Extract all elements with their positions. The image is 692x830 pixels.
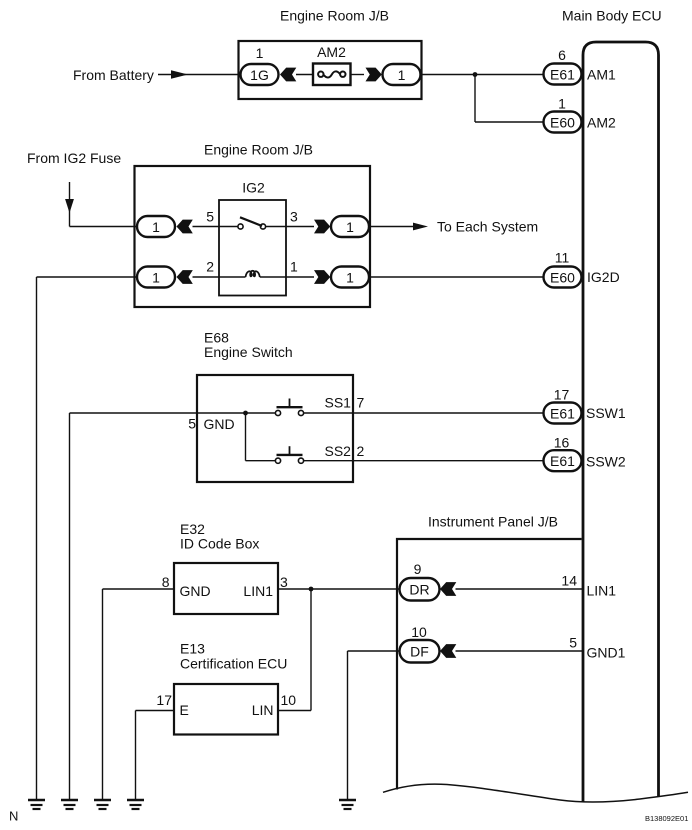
wire SS2 to SSW2 bbox=[304, 460, 544, 462]
svg-text:14: 14 bbox=[561, 573, 577, 589]
svg-text:E60: E60 bbox=[550, 114, 575, 130]
svg-text:3: 3 bbox=[280, 574, 288, 590]
wire E13 E to ground run bbox=[136, 710, 175, 712]
connector DF bbox=[400, 640, 440, 663]
svg-text:1: 1 bbox=[152, 219, 160, 235]
wire arrow to coil bbox=[193, 276, 220, 278]
arrow into row1 left connector bbox=[177, 220, 193, 234]
wire coil to arrow row2 bbox=[286, 276, 314, 278]
svg-text:IG2D: IG2D bbox=[587, 269, 620, 285]
svg-text:E61: E61 bbox=[550, 405, 575, 421]
svg-text:17: 17 bbox=[554, 387, 570, 403]
wire ground run 2 vertical bbox=[69, 413, 71, 800]
wire fuse to arrow bbox=[351, 74, 365, 76]
svg-text:From IG2 Fuse: From IG2 Fuse bbox=[27, 150, 121, 166]
arrow into DF bbox=[440, 644, 456, 658]
connector E61 SSW1 bbox=[544, 403, 582, 424]
connector 1 (row1 left) bbox=[137, 216, 175, 237]
svg-text:11: 11 bbox=[555, 250, 570, 266]
junction block J/B top box bbox=[239, 41, 422, 99]
arrow into row1 right connector bbox=[314, 220, 330, 234]
arrow into row2 right connector bbox=[314, 270, 330, 284]
svg-text:GND: GND bbox=[180, 583, 211, 599]
wire arrow to fuse bbox=[296, 74, 313, 76]
wire SS1 to SSW1 bbox=[304, 412, 544, 414]
svg-text:SSW1: SSW1 bbox=[586, 405, 626, 421]
svg-text:N: N bbox=[9, 809, 18, 824]
svg-text:6: 6 bbox=[558, 47, 566, 63]
wire row2 to left ground run bbox=[37, 276, 138, 278]
wire relay to arrow row1 bbox=[286, 226, 314, 228]
wire E13 LIN to junction bbox=[278, 710, 311, 712]
svg-text:8: 8 bbox=[162, 574, 170, 590]
junction block Instrument Panel J/B outline bbox=[397, 539, 582, 790]
switch E68 box bbox=[197, 375, 353, 482]
svg-text:7: 7 bbox=[357, 395, 365, 411]
junction block Engine Room J/B box bbox=[135, 166, 371, 307]
svg-text:LIN1: LIN1 bbox=[587, 583, 617, 599]
svg-text:3: 3 bbox=[290, 209, 298, 225]
wire LIN1 to DR bbox=[278, 588, 400, 590]
arrow into row2 left connector bbox=[177, 270, 193, 284]
wire to AM1 bbox=[421, 74, 544, 76]
connector E60 AM2 bbox=[544, 112, 582, 133]
wire DF to ECU GND1 bbox=[456, 650, 584, 652]
wire to IG2D bbox=[369, 276, 544, 278]
svg-text:GND1: GND1 bbox=[587, 645, 626, 661]
svg-text:Engine Room J/B: Engine Room J/B bbox=[204, 142, 313, 158]
svg-text:Instrument Panel J/B: Instrument Panel J/B bbox=[428, 514, 558, 530]
svg-text:Certification ECU: Certification ECU bbox=[180, 656, 287, 672]
connector E60 IG2D bbox=[544, 267, 582, 288]
svg-text:SS1: SS1 bbox=[325, 395, 352, 411]
connector 1 (row2 left) bbox=[137, 267, 175, 288]
svg-text:1: 1 bbox=[398, 67, 406, 83]
svg-text:E61: E61 bbox=[550, 66, 575, 82]
junction node LIN bbox=[309, 587, 314, 592]
svg-text:AM2: AM2 bbox=[317, 44, 346, 60]
ground G1 bbox=[28, 800, 45, 809]
svg-text:5: 5 bbox=[206, 209, 214, 225]
svg-text:10: 10 bbox=[411, 624, 427, 640]
ground G5 bbox=[339, 800, 356, 809]
arrow into 1G bbox=[280, 68, 296, 82]
svg-text:5: 5 bbox=[188, 416, 196, 432]
wire to AM2 pin bbox=[475, 121, 544, 123]
svg-text:9: 9 bbox=[414, 561, 422, 577]
connector E61 AM1 bbox=[544, 64, 582, 85]
svg-text:AM2: AM2 bbox=[587, 115, 616, 131]
arrow into DR bbox=[440, 582, 456, 596]
relay switch contact bbox=[219, 217, 286, 229]
svg-text:E: E bbox=[180, 702, 189, 718]
connector 1 (row2 right) bbox=[331, 267, 369, 288]
wire from battery bbox=[158, 74, 239, 76]
svg-text:1: 1 bbox=[346, 269, 354, 285]
connector DR bbox=[400, 578, 440, 601]
ECU E13 Certification ECU bbox=[174, 684, 278, 735]
svg-text:SSW2: SSW2 bbox=[586, 454, 626, 470]
svg-text:E13: E13 bbox=[180, 641, 205, 657]
relay coil bbox=[219, 271, 286, 277]
ground G3 bbox=[94, 800, 111, 809]
svg-text:B138092E01: B138092E01 bbox=[645, 814, 688, 823]
svg-text:To Each System: To Each System bbox=[437, 218, 538, 234]
svg-text:ID Code Box: ID Code Box bbox=[180, 536, 259, 552]
svg-text:SS2: SS2 bbox=[325, 443, 352, 459]
svg-text:Engine Room J/B: Engine Room J/B bbox=[280, 7, 389, 23]
switch SS1 bbox=[275, 399, 303, 416]
connector 1G bbox=[241, 64, 279, 85]
svg-text:GND: GND bbox=[204, 416, 235, 432]
svg-text:Engine Switch: Engine Switch bbox=[204, 344, 293, 360]
svg-text:1G: 1G bbox=[250, 67, 269, 83]
svg-text:LIN: LIN bbox=[252, 702, 274, 718]
wire junction to SS2 bbox=[245, 413, 247, 461]
svg-text:1: 1 bbox=[256, 45, 264, 61]
svg-text:DR: DR bbox=[409, 582, 429, 598]
svg-text:5: 5 bbox=[569, 635, 577, 651]
svg-text:LIN1: LIN1 bbox=[243, 583, 273, 599]
svg-text:E60: E60 bbox=[550, 269, 575, 285]
wire gnd run to SS1 bbox=[70, 412, 276, 414]
ECU U1 Main Body ECU outline bbox=[583, 42, 659, 803]
wire DR to ECU LIN1 bbox=[456, 588, 584, 590]
wire to each system bbox=[369, 226, 415, 228]
wire ground run 3 vertical bbox=[102, 589, 104, 800]
arrow into right connector bbox=[366, 68, 382, 82]
wire ground run 4 vertical bbox=[135, 711, 137, 801]
wire from IG2 fuse down bbox=[69, 182, 71, 227]
connector 1 (row1 right) bbox=[331, 216, 369, 237]
svg-text:AM1: AM1 bbox=[587, 67, 616, 83]
svg-text:16: 16 bbox=[554, 435, 570, 451]
svg-text:2: 2 bbox=[206, 259, 214, 275]
tear line (wavy) bbox=[383, 784, 688, 802]
svg-text:From Battery: From Battery bbox=[73, 67, 154, 83]
wire LIN junction down bbox=[310, 589, 312, 711]
connector 1 (right of fuse) bbox=[383, 64, 421, 85]
arrowhead from battery bbox=[171, 70, 188, 79]
svg-text:10: 10 bbox=[281, 692, 297, 708]
junction node switch bbox=[243, 411, 248, 416]
svg-text:1: 1 bbox=[346, 219, 354, 235]
svg-text:1: 1 bbox=[290, 259, 298, 275]
svg-text:2: 2 bbox=[357, 443, 365, 459]
svg-text:IG2: IG2 bbox=[242, 180, 265, 196]
svg-text:1: 1 bbox=[558, 96, 566, 112]
svg-text:1: 1 bbox=[152, 269, 160, 285]
svg-text:DF: DF bbox=[410, 644, 429, 660]
wire E32 GND to ground run bbox=[103, 588, 175, 590]
ground G2 bbox=[61, 800, 78, 809]
junction node bbox=[473, 72, 478, 77]
relay IG2 inner box bbox=[219, 200, 286, 296]
ECU E32 ID Code Box bbox=[174, 563, 278, 614]
wire junction down bbox=[474, 75, 476, 123]
wire ground run 5 vertical bbox=[347, 651, 349, 800]
arrowhead to each system bbox=[413, 223, 428, 231]
svg-text:17: 17 bbox=[156, 692, 172, 708]
fuse AM2 bbox=[313, 64, 351, 86]
wire arrow to relay bbox=[193, 226, 220, 228]
wire DF to ground run bbox=[348, 650, 400, 652]
arrowhead down bbox=[65, 199, 74, 213]
connector E61 SSW2 bbox=[544, 450, 582, 471]
svg-text:Main Body ECU: Main Body ECU bbox=[562, 7, 662, 23]
wire ground run 1 vertical bbox=[36, 277, 38, 800]
svg-text:E61: E61 bbox=[550, 453, 575, 469]
ground G4 bbox=[127, 800, 144, 809]
wire to IG2 box bbox=[70, 226, 138, 228]
switch SS2 bbox=[275, 446, 303, 463]
